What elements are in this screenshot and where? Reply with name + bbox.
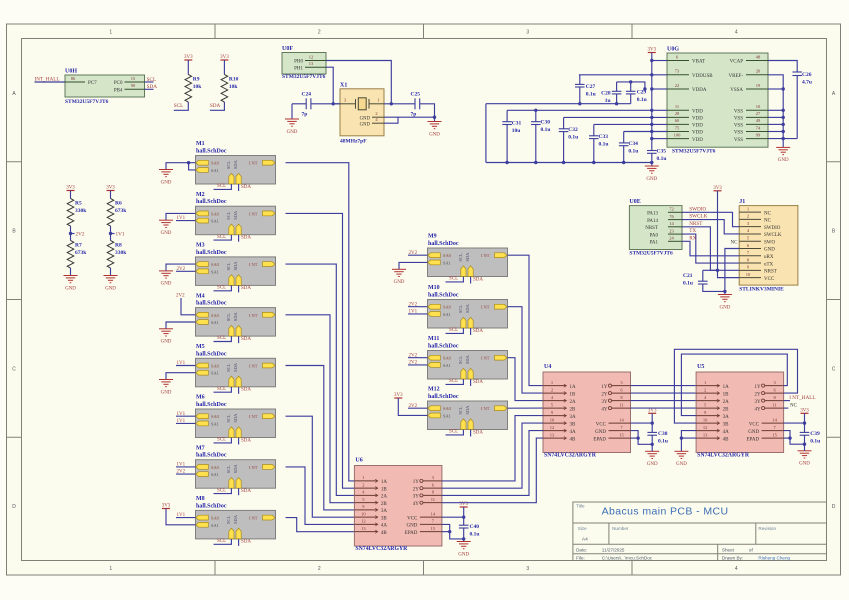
svg-text:GND: GND [748,430,759,435]
U5 pin 7 GND [748,425,783,435]
svg-text:I NT: I NT [249,313,258,318]
M7 wire SCL stub [214,488,232,493]
svg-text:D: D [832,504,836,510]
svg-text:0.1u: 0.1u [657,156,667,162]
node 3V3 C21 tap [716,269,719,272]
M7 entry SA1 [196,472,219,477]
svg-text:22: 22 [675,83,680,88]
svg-text:SWCLK: SWCLK [689,214,707,220]
svg-text:NC: NC [764,211,772,216]
M6 entry SDA bottom [233,413,241,438]
svg-text:1A: 1A [723,385,730,390]
svg-text:11: 11 [675,104,679,109]
svg-text:C: C [832,366,836,372]
svg-text:SDA: SDA [233,464,238,474]
hall sheet symbol M5 [196,344,276,387]
svg-text:SDA: SDA [241,388,251,393]
svg-text:GND: GND [105,286,116,291]
svg-text:R7: R7 [75,243,82,249]
svg-text:VBAT: VBAT [692,60,705,65]
svg-text:60: 60 [675,118,680,123]
M10 entry SCL bottom [458,305,466,328]
capacitor C34 0.1u [619,132,638,163]
svg-text:M9: M9 [428,234,437,240]
wire U5 GND EPAD [784,431,807,446]
U4 pin 9 3A [543,410,576,420]
U6 pin 5 2B [354,497,387,507]
hall sheet symbol M4 [196,293,276,336]
wire U5 4Y stub [784,407,789,409]
svg-text:SA0: SA0 [443,406,452,411]
svg-text:48MHz7pF: 48MHz7pF [340,139,367,145]
M12 strap SA0 2V2 [408,404,428,409]
M6 entry SA1 [196,421,219,426]
svg-text:Number: Number [612,526,629,531]
svg-text:15: 15 [772,432,777,437]
wire M8 INT to U6 4B [286,518,355,532]
M1 entry SA1 [196,168,219,173]
hall sheet symbol M9 [428,234,508,277]
M10 entry SDA bottom [465,303,473,328]
node C28C29 link to VDDA [643,87,646,90]
J1 pin 7 uRX [739,250,774,260]
svg-text:2: 2 [362,482,364,487]
M5 entry SDA bottom [233,362,241,387]
ground under VSS rail [776,147,790,163]
svg-text:SCL: SCL [217,539,226,544]
U5 pin 11 4Y [754,402,783,412]
wire ground bus under caps [486,162,652,164]
M12 entry INT [481,406,507,411]
svg-text:2A: 2A [570,400,577,405]
U4 pin 6 2Y [601,387,630,397]
capacitor C29 0.1u [626,82,647,104]
U6 pin 13 4B [354,526,387,536]
M1 wire SDA stub [238,184,240,191]
svg-text:I NT: I NT [481,253,490,258]
U6 pin 2 1B [354,482,387,492]
svg-text:2B: 2B [723,407,730,412]
M2 wire SCL stub [214,235,232,240]
svg-text:SA0: SA0 [211,465,220,470]
svg-text:10k: 10k [193,84,203,90]
svg-text:PC0: PC0 [114,81,123,86]
J1 pin 3 SWDIO [739,221,781,231]
wire M11 INT to U4 2A [508,358,544,401]
svg-text:10: 10 [550,417,555,422]
svg-text:Sheet: Sheet [722,548,735,553]
power 3V3 at U6 [459,502,468,507]
svg-text:GND: GND [676,462,687,467]
svg-text:13: 13 [361,526,366,531]
svg-text:SCL: SCL [226,161,231,169]
M9 entry INT [481,253,507,258]
M1 entry SDA bottom [233,159,241,184]
svg-text:VCAP: VCAP [730,60,744,65]
svg-text:0.1u: 0.1u [637,97,647,103]
ground under J1 [718,291,732,310]
svg-text:3B: 3B [381,516,388,521]
svg-text:SA1: SA1 [211,523,219,528]
U0G pin 28 VDD [667,111,703,121]
svg-text:4: 4 [735,30,738,36]
U0H pin 15 PC0 [114,76,145,86]
J1 pin 10 VCC [739,272,775,282]
svg-text:3A: 3A [381,509,388,514]
wire U0H SDA stub [145,88,154,90]
svg-text:VSSA: VSSA [730,88,743,93]
node vss rail 138 [782,137,785,140]
wire U4 2Y to U5 [631,392,697,394]
hall sheet symbol M6 [196,395,276,438]
svg-text:I NT: I NT [481,406,490,411]
svg-text:M1: M1 [196,141,205,147]
M8 strap SA1 3V3 [162,504,196,525]
svg-text:0.1u: 0.1u [599,141,609,147]
svg-text:SA1: SA1 [211,421,219,426]
svg-text:3A: 3A [723,415,730,420]
svg-text:1A: 1A [570,385,577,390]
svg-text:SA1: SA1 [443,413,451,418]
svg-text:SA0: SA0 [443,305,452,310]
svg-text:3V3: 3V3 [394,393,403,398]
power 3V3 above R10 [220,55,229,60]
svg-text:NRST: NRST [645,226,658,231]
svg-text:SCL: SCL [458,406,463,414]
svg-text:2A: 2A [723,400,730,405]
svg-text:0.1u: 0.1u [810,439,820,445]
svg-text:1Y: 1Y [601,385,608,390]
svg-text:VCC: VCC [596,422,607,427]
power 3V3 above R5 [66,186,75,191]
svg-text:I NT: I NT [249,465,258,470]
svg-text:EPAD: EPAD [405,531,418,536]
svg-text:Size: Size [578,526,587,531]
svg-text:SDA: SDA [233,413,238,423]
U0G pin 22 VDDA [667,83,707,93]
svg-text:1B: 1B [570,392,577,397]
M9 strap SA0 2V2 [408,251,428,256]
svg-text:uTX: uTX [764,262,774,267]
svg-text:SA1: SA1 [211,371,219,376]
svg-text:VCC: VCC [764,277,775,282]
power 3V3 at U5 [800,408,809,413]
svg-text:PA13: PA13 [647,212,658,217]
svg-text:4Y: 4Y [413,502,420,507]
M8 strap SA0 1V1 [176,513,196,518]
U0G pin 99 VSS [734,132,768,142]
svg-text:GND: GND [161,340,172,345]
wire analog ground link [486,103,631,105]
wire U0H SCL stub [145,81,154,83]
svg-text:M4: M4 [196,293,205,299]
M3 entry SDA bottom [233,261,241,286]
svg-text:SA0: SA0 [443,253,452,258]
U4 pin 13 4B [543,432,576,442]
M11 entry INT [481,355,507,360]
wire U6 2Y to U4 3B [442,423,543,488]
ic U6 SN74LVC32ARGYR [354,457,442,552]
svg-text:4A: 4A [381,524,388,529]
svg-text:C28: C28 [601,91,611,97]
ground under C39 [798,444,812,466]
svg-text:99: 99 [756,132,761,137]
wire 3V3 to J1 VCC pin10 [718,191,740,278]
title block texts [576,504,790,561]
hall sheet symbol M11 [428,336,508,379]
svg-text:3V3: 3V3 [220,55,229,60]
svg-text:23: 23 [669,228,674,233]
svg-text:GND: GND [360,116,371,121]
svg-text:STM32U5F7VJT6: STM32U5F7VJT6 [672,149,716,155]
U4 pin 3 1Y [601,380,630,390]
svg-text:86: 86 [71,76,76,81]
svg-text:hall.SchDoc: hall.SchDoc [428,241,459,247]
svg-text:SDA: SDA [465,405,470,415]
capacitor C32 0.1u [559,117,578,162]
M1 straps to GND [159,161,196,185]
svg-text:3V3: 3V3 [106,186,115,191]
svg-text:NC: NC [764,219,772,224]
U0F pin 13 PH1 [294,61,326,71]
crystal X1 48MHz7pF [340,83,384,145]
U0H pin 86 PC7 [65,76,97,86]
J1 pin 8 uTX [739,257,773,267]
svg-text:0.1u: 0.1u [541,127,551,133]
M8 entry SDA bottom [233,514,241,539]
svg-text:4.7u: 4.7u [802,79,812,85]
svg-text:7p: 7p [411,112,417,118]
capacitor C39 0.1u [800,431,821,445]
M9 entry SA1 [428,260,451,265]
ic U0F STM32 fragment [282,46,326,80]
svg-text:SA1: SA1 [211,168,219,173]
M2 entry SA0 [196,211,220,216]
svg-text:VSS: VSS [734,124,743,129]
svg-text:11: 11 [772,402,776,407]
svg-text:1: 1 [377,98,379,103]
U6 pin 11 4Y [413,497,442,507]
svg-text:NRST: NRST [764,270,777,275]
M6 strap SA1 1V1 [176,419,196,424]
svg-text:PA14: PA14 [647,219,658,224]
wire PH1 to crystal left node [326,67,333,104]
U5 pin 5 2B [696,402,729,412]
svg-text:SDA: SDA [147,84,158,90]
svg-text:3V3: 3V3 [647,48,656,53]
wire X1 pin1 to C25 [384,103,415,105]
M4 entry SDA bottom [233,311,241,336]
M3 strap SA1 2V2 [176,267,196,272]
node rail VDDUSB [650,73,653,76]
svg-text:3V3: 3V3 [66,186,75,191]
svg-text:I NT: I NT [249,414,258,419]
svg-text:19: 19 [756,83,761,88]
svg-text:VDD: VDD [692,110,703,115]
svg-text:3B: 3B [723,422,730,427]
M9 entry SDA bottom [465,252,473,277]
svg-text:I NT: I NT [249,516,258,521]
svg-text:C39: C39 [810,431,820,437]
U4 pin 8 3Y [601,395,630,405]
svg-text:M2: M2 [196,192,205,198]
svg-text:GND: GND [161,180,172,185]
svg-text:673k: 673k [115,208,127,214]
U0G pin 48 VCAP [730,54,768,64]
U4 pin 5 2B [543,402,576,412]
wire VSS99 C26 join [768,138,797,140]
M7 entry SA0 [196,465,220,470]
svg-text:EPAD: EPAD [593,437,606,442]
M12 entry SA0 [428,406,452,411]
node rail VDD60 [650,123,653,126]
svg-text:SCL: SCL [217,235,226,240]
capacitor C25 7p [411,92,435,118]
node C25 ground junction [433,116,436,119]
M4 entry SA1 [196,320,219,325]
svg-text:SCL: SCL [226,465,231,473]
M11 entry SCL bottom [458,356,466,379]
svg-text:SA1: SA1 [443,260,451,265]
wire NRST to J1 pin9 [682,227,739,271]
svg-text:M8: M8 [196,496,205,502]
wire M9 INT to U4 1A [508,255,544,385]
wire U6 3Y to U4 4A [442,431,543,496]
svg-text:GND: GND [778,158,789,163]
svg-text:PH0: PH0 [294,60,303,65]
ground under R8 [104,276,118,292]
svg-text:C31: C31 [512,121,522,127]
node bus C30 [534,161,537,164]
svg-text:SDA: SDA [233,311,238,321]
svg-text:SCL: SCL [458,305,463,313]
svg-text:C26: C26 [802,72,812,78]
svg-text:SA0: SA0 [211,211,220,216]
M5 strap SA1 GND [159,373,196,396]
svg-text:SDA: SDA [233,261,238,271]
M9 wire SCL stub [446,277,464,282]
svg-text:hall.SchDoc: hall.SchDoc [196,149,227,155]
svg-text:0.1u: 0.1u [568,134,578,140]
svg-text:SCL: SCL [174,103,184,109]
svg-text:VDD: VDD [692,117,703,122]
M3 entry SA1 [196,269,219,274]
svg-text:75: 75 [675,125,680,130]
U0H pin 90 PB4 [114,83,145,93]
M3 entry INT [249,262,275,267]
M2 entry INT [249,211,275,216]
svg-text:J1: J1 [739,199,745,205]
svg-text:2B: 2B [381,502,388,507]
M6 strap SA0 1V1 [176,412,196,417]
svg-text:SDA: SDA [241,489,251,494]
U5 pin 10 3B [696,417,729,427]
M4 strap SA1 GND [159,322,196,345]
svg-text:TX: TX [689,228,696,234]
wire left ground drop [485,104,487,163]
node C28 bottom [615,102,618,105]
capacitor C33 0.1u [589,124,608,162]
svg-text:0.1u: 0.1u [470,531,480,537]
svg-text:SDA: SDA [473,430,483,435]
svg-text:GND: GND [647,462,658,467]
ground at C24 [285,104,299,135]
svg-text:0.1u: 0.1u [628,148,638,154]
svg-text:4A: 4A [570,430,577,435]
svg-text:C: C [12,366,16,372]
svg-text:STM32U5F7VJT6: STM32U5F7VJT6 [65,99,109,105]
M11 strap SA1 2V2 [408,361,428,366]
wire VDDUSB line [579,74,667,76]
svg-text:SCL: SCL [217,438,226,443]
resistor R10 10k [210,60,239,110]
svg-text:GND: GND [65,286,76,291]
U5 pin 8 3Y [754,395,783,405]
svg-text:SCL: SCL [226,414,231,422]
M11 wire SDA stub [470,379,472,386]
ic U4 SN74LVC32ARGYR [543,364,631,459]
svg-text:4A: 4A [723,430,730,435]
M8 entry SA1 [196,522,219,527]
M11 entry SA0 [428,355,452,360]
svg-text:C38: C38 [658,431,668,437]
M10 wire SCL stub [446,328,464,333]
svg-text:GND: GND [458,552,469,557]
svg-text:0.1u: 0.1u [658,439,668,445]
svg-text:GND: GND [646,177,657,182]
svg-text:10u: 10u [512,128,521,134]
svg-text:hall.SchDoc: hall.SchDoc [196,503,227,509]
U5 pin 2 1B [696,387,729,397]
svg-text:C24: C24 [302,92,312,98]
M10 strap SA1 1V1 [408,310,428,315]
svg-text:76: 76 [669,214,674,219]
hall sheet symbol M2 [196,192,276,235]
svg-text:3: 3 [526,30,529,36]
capacitor C26 4.7u [792,72,812,139]
svg-text:13: 13 [550,432,555,437]
M4 entry INT [249,312,275,317]
svg-text:I NT: I NT [249,211,258,216]
M2 wire SDA stub [238,235,240,242]
U4 pin 10 3B [543,417,576,427]
M6 wire SDA stub [238,438,240,445]
M11 entry SDA bottom [465,354,473,379]
node vss rail 117.4 [782,116,785,119]
wire C28 C29 top link to VDDA [617,82,645,89]
wire U5 VCC rail [784,413,807,432]
svg-text:D: D [12,504,16,510]
hall sheet symbol M10 [428,285,508,328]
M5 entry SA0 [196,363,220,368]
svg-text:SDA: SDA [241,236,251,241]
svg-text:SDA: SDA [233,210,238,220]
node 1V1 divider tap [109,232,125,238]
wire U4 1Y to U5 [631,385,697,387]
U0G pin 75 VDD [667,125,703,135]
U0E pin 14 NRST [645,221,682,231]
wire U4 4Y to U5 [631,407,697,409]
M7 entry SDA bottom [233,464,241,489]
resistor R8 330k [107,241,127,276]
svg-text:hall.SchDoc: hall.SchDoc [428,344,459,350]
svg-text:330k: 330k [75,208,87,214]
M2 entry SDA bottom [233,210,241,235]
J1 pin 9 NRST [739,265,777,275]
svg-text:49: 49 [756,118,761,123]
svg-text:hall.SchDoc: hall.SchDoc [196,250,227,256]
svg-text:SA0: SA0 [211,414,220,419]
